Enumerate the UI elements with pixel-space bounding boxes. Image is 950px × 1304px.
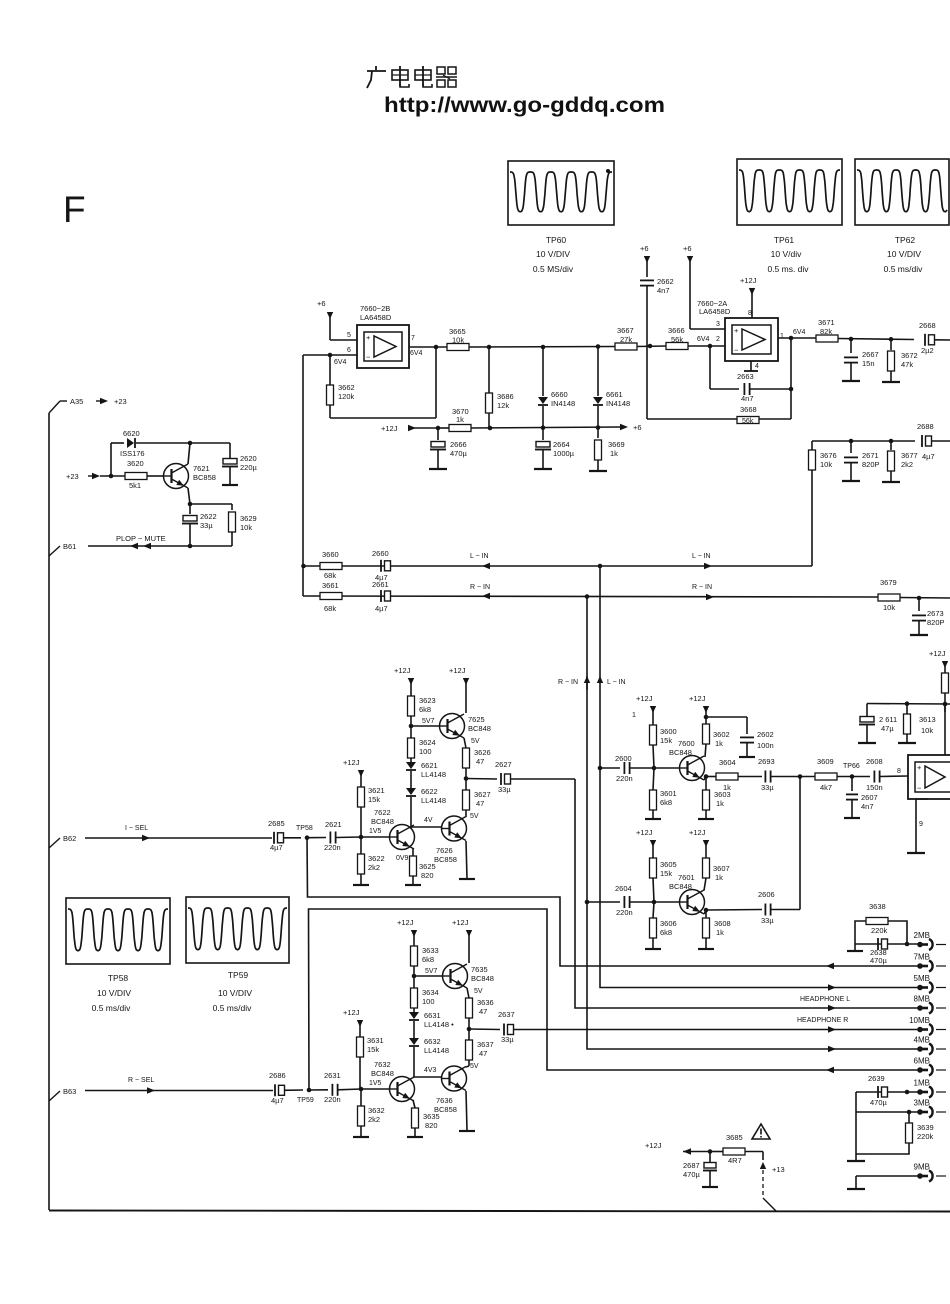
svg-text:+23: +23 [114,397,127,406]
svg-text:2667: 2667 [862,350,879,359]
resistor 3666 56k [666,326,725,350]
svg-text:6k8: 6k8 [419,705,431,714]
svg-text:TP61: TP61 [774,235,795,245]
node 2627 [464,776,469,781]
label TP58 10 V/DIV [97,988,131,998]
capacitor 2621 220n [324,820,361,852]
node 2602 branch [704,715,709,720]
svg-text:220µ: 220µ [240,463,258,472]
wire I-SEL from B62 [85,837,272,839]
label TP62 0.5 ms/div [884,264,923,274]
svg-text:ISS176: ISS176 [120,449,145,458]
wire feedback vertical 2A [790,338,792,419]
svg-text:R − SEL: R − SEL [128,1077,154,1084]
svg-text:+12J: +12J [397,918,414,927]
svg-text:220n: 220n [616,908,633,917]
power arrow +6 to opamp 2B [317,299,333,340]
node output 2A feedback [789,336,794,341]
svg-text:6MB: 6MB [914,1057,930,1066]
resistor 3605 15k [650,858,677,902]
node 3613 top [905,701,910,706]
node TP66 [843,763,860,779]
svg-text:+23: +23 [66,472,79,481]
capacitor 2662 4n7 [640,277,674,346]
pin 5 label [347,332,351,339]
svg-text:3621: 3621 [368,786,385,795]
resistor 3665 10k [447,327,615,351]
wire 3668 row [647,418,737,420]
svg-text:+12J: +12J [381,424,398,433]
wire 4MB line [587,1046,920,1052]
svg-text:33µ: 33µ [761,916,774,925]
svg-text:5V: 5V [471,738,480,745]
node 3686 top [487,345,492,350]
svg-text:3MB: 3MB [914,1099,930,1108]
wire branch to 2602 [706,717,747,734]
svg-text:2606: 2606 [758,890,775,899]
svg-text:820: 820 [421,871,434,880]
wire PLOP-MUTE [88,543,232,549]
node 2622 on plop wire [188,544,193,549]
resistor 3662 120k [327,355,355,418]
svg-text:47µ: 47µ [881,724,894,733]
connector 3MB [914,1099,946,1118]
wire 7622 collector to diode chain [410,827,412,828]
svg-text:8: 8 [748,310,752,317]
wire 2MB net [855,943,920,945]
svg-text:220n: 220n [324,1095,341,1104]
svg-text:+12J: +12J [636,694,653,703]
wire TP58 to 7MB link [307,838,588,966]
wire 7632 emitter [413,1100,415,1108]
label L-IN east [692,553,711,560]
diode 6621 LL4148 [406,760,446,788]
svg-text:2622: 2622 [200,512,217,521]
ground 3625 [405,884,421,886]
svg-text:+6: +6 [633,423,642,432]
svg-text:3666: 3666 [668,326,685,335]
svg-text:6622: 6622 [421,787,438,796]
svg-text:2k2: 2k2 [368,1115,380,1124]
resistor 3602 1k [703,724,730,757]
svg-text:3609: 3609 [817,757,834,766]
svg-text:4MB: 4MB [914,1036,930,1045]
svg-text:LA6458D: LA6458D [360,313,392,322]
switch to +13 [760,1152,785,1212]
svg-text:4V3: 4V3 [424,1067,437,1074]
power arrow +6 to pin3 of 2A [683,244,693,329]
wire 7621 collector to top node [188,443,190,464]
ground 2607 [844,817,860,819]
wire R-IN [303,596,878,597]
ground 3635 [407,1136,423,1138]
svg-text:+12J: +12J [740,276,757,285]
svg-text:56k: 56k [671,335,683,344]
svg-text:3679: 3679 [880,578,897,587]
resistor 3612 right edge [942,673,949,712]
power arrow +23 input [66,472,100,481]
svg-text:7632: 7632 [374,1060,391,1069]
svg-text:4n7: 4n7 [741,394,754,403]
svg-text:10 V/DIV: 10 V/DIV [536,249,570,259]
wire 9MB line [856,1175,920,1177]
svg-text:2µ2: 2µ2 [921,346,934,355]
svg-text:2620: 2620 [240,454,257,463]
diode 6622 LL4148 [406,787,446,827]
svg-text:2k2: 2k2 [368,863,380,872]
svg-text:3: 3 [716,321,720,328]
wire 7636 collector [466,1066,469,1067]
label TP58 0.5 ms/div [92,1003,131,1013]
svg-text:820P: 820P [862,460,880,469]
wire pin2 down to 2663 [710,346,739,389]
svg-text:BC848: BC848 [669,748,692,757]
wire emitter node down to 2622 [189,504,191,514]
svg-text:3607: 3607 [713,864,730,873]
svg-text:3624: 3624 [419,738,436,747]
wire emitter to 2606 [706,909,762,912]
svg-text:TP59: TP59 [228,970,249,980]
node 2663 right [789,387,794,392]
transistor Q7636 BC858 [434,1063,479,1114]
svg-text:+12J: +12J [636,828,653,837]
wire 7626 collector [465,816,467,817]
arrow L-IN right [704,563,712,569]
node 1MB [905,1090,910,1095]
capacitor 2627 33u [495,760,575,794]
node 2673 [917,596,922,601]
svg-text:4µ7: 4µ7 [922,452,935,461]
node 2604 on R-IN dropper [585,900,590,905]
svg-text:33µ: 33µ [761,783,774,792]
wire 2662 through main to 3668 [646,346,648,419]
wire 5MB line [600,984,920,990]
svg-text:3662: 3662 [338,383,355,392]
op-amp U7660-2A LA6458D [697,299,778,361]
svg-text:2685: 2685 [268,819,285,828]
svg-text:3620: 3620 [127,459,144,468]
svg-text:4: 4 [755,363,759,370]
ground 2667 [842,380,860,382]
svg-text:2662: 2662 [657,277,674,286]
svg-text:3671: 3671 [818,318,835,327]
svg-text:3605: 3605 [660,860,677,869]
label R-IN at droppers [558,676,590,690]
resistor 3634 100 [411,988,439,1010]
svg-text:100n: 100n [757,741,774,750]
stray label 1 [632,712,636,719]
svg-text:7626: 7626 [436,846,453,855]
arrow +6 end of rail [620,423,642,432]
connector notch A35 [49,397,83,413]
svg-text:3601: 3601 [660,789,677,798]
resistor 3672 47k [888,339,918,381]
svg-text:6621: 6621 [421,761,438,770]
svg-text:+12J: +12J [689,828,706,837]
svg-text:3638: 3638 [869,902,886,911]
wire 8MB line [602,1005,920,1011]
svg-text:47k: 47k [901,360,913,369]
node diode chain to 7636 base wire [414,1076,442,1078]
capacitor 2602 100n [740,730,774,756]
ground 2666 [429,468,447,470]
power arrow +12J bottom [645,1141,712,1155]
resistor 3661 68k [320,581,342,613]
svg-text:1k: 1k [715,873,723,882]
diode 6661 IN4148 [593,347,630,429]
svg-text:470µ: 470µ [683,1170,701,1179]
node 5V7 upper [409,718,435,728]
pin 4 label and ground stub [744,361,759,371]
wire L-IN dropper vertical [599,566,601,986]
svg-text:+12J: +12J [343,1008,360,1017]
ground 3608 [698,948,714,950]
svg-text:33µ: 33µ [501,1035,514,1044]
svg-text:3632: 3632 [368,1106,385,1115]
svg-text:10k: 10k [452,336,464,345]
svg-text:2661: 2661 [372,580,389,589]
resistor 3670 1k [449,407,620,432]
wire +23 to node [100,475,125,477]
label TP61 0.5 ms.div [767,264,809,274]
label 6V4 at pin1 [793,329,806,336]
svg-text:1MB: 1MB [914,1079,930,1088]
svg-text:2607: 2607 [861,793,878,802]
svg-text:6661: 6661 [606,390,623,399]
wire 7632 base [361,1088,390,1090]
node emitter 7601 [704,908,709,913]
node R-IN dropper [585,594,590,599]
wire long vertical to L-IN [302,355,304,596]
svg-text:4µ7: 4µ7 [270,843,283,852]
label L-IN west [470,553,489,560]
svg-text:BC858: BC858 [193,473,216,482]
transistor Q7622 BC848 [371,808,415,862]
svg-text:TP58: TP58 [108,973,129,983]
resistor 3668 56k [737,405,791,425]
label TP62 10 V/DIV [887,249,921,259]
wire 6MB line [588,1067,920,1073]
resistor 3629 10k [229,512,257,546]
svg-text:BC848: BC848 [371,1069,394,1078]
capacitor 2600 220n [600,754,653,783]
left boundary wire [48,413,50,1210]
svg-text:3623: 3623 [419,696,436,705]
wire R-SEL from B63 [85,1090,273,1092]
resistor 3669 1k [595,428,625,471]
resistor 3621 15k [358,786,385,837]
label PLOP-MUTE [116,534,166,543]
power arrow +12J 3605 [636,828,656,858]
svg-text:3626: 3626 [474,748,491,757]
svg-text:B61: B61 [63,542,76,551]
arrow headphone R line [828,1026,836,1032]
svg-text:0.5 ms/div: 0.5 ms/div [92,1003,131,1013]
svg-text:220n: 220n [324,843,341,852]
label 1V5 lower [369,1080,382,1087]
oscillogram TP58 box with waveform [66,898,170,964]
svg-text:2 611: 2 611 [879,715,897,724]
svg-text:3669: 3669 [608,440,625,449]
ground 3632 [353,1136,369,1138]
resistor 3601 6k8 [650,768,677,818]
svg-text:10k: 10k [883,603,895,612]
svg-text:LL4148: LL4148 [421,770,446,779]
svg-text:68k: 68k [324,571,336,580]
svg-text:3608: 3608 [714,919,731,928]
oscillogram TP62 box with waveform [855,159,949,225]
svg-text:1V5: 1V5 [369,1080,382,1087]
resistor 3609 4k7 [815,757,870,792]
svg-text:12k: 12k [497,401,509,410]
label TP60 0.5 MS/div [533,264,574,274]
svg-text:3629: 3629 [240,514,257,523]
svg-text:R − IN: R − IN [558,679,578,686]
capacitor 2637 33u [498,1010,515,1044]
svg-text:+12J: +12J [689,694,706,703]
svg-text:+13: +13 [772,1165,785,1174]
transistor Q7621 BC858 [164,464,216,489]
ground 7626 [459,878,475,880]
resistor 3639 220k [856,1112,934,1154]
svg-text:10 V/DIV: 10 V/DIV [97,988,131,998]
wire 7636 emitter to ground [466,1091,467,1130]
label 6V4 at pin6 [334,359,347,366]
label R-IN east [692,584,712,591]
resistor 3627 47 [463,790,491,816]
power arrow +6 above 2662 [640,244,650,277]
svg-text:3661: 3661 [322,581,339,590]
node pin2 feedback [708,344,713,349]
resistor 3626 47 [463,748,491,790]
ground 3606 [645,948,661,950]
node output 2B [434,345,439,350]
svg-text:2637: 2637 [498,1010,515,1019]
transistor Q7600 BC848 [669,739,705,781]
wire R-IN dropper vertical [586,597,588,1049]
capacitor 2638 470u [870,938,888,965]
svg-text:3639: 3639 [917,1123,934,1132]
svg-text:8MB: 8MB [914,995,930,1004]
wire pin6 to feedback node [303,354,357,356]
svg-text:7MB: 7MB [914,953,930,962]
capacitor 2631 220n [324,1071,361,1104]
svg-text:5V: 5V [474,988,483,995]
svg-text:47: 47 [479,1049,487,1058]
connector 4MB [914,1036,946,1055]
svg-text:4µ7: 4µ7 [375,604,388,613]
arrow to +23 at A35 [96,397,127,406]
pin 8 label right opamp [897,768,901,775]
wire 7625 emitter [464,738,466,748]
svg-text:27k: 27k [620,335,632,344]
transistor Q7635 BC848 [443,964,494,996]
node 6661 top [596,344,601,349]
capacitor 2604 220n [587,884,653,917]
oscillogram TP61 box with waveform [737,159,842,225]
wire 5V7 to 7635 base [414,975,443,977]
svg-text:6k8: 6k8 [660,798,672,807]
svg-text:7635: 7635 [471,965,488,974]
svg-text:4µ7: 4µ7 [271,1096,284,1105]
svg-text:1k: 1k [716,799,724,808]
capacitor 2668 2u2 [919,321,950,355]
svg-text:56k: 56k [742,418,754,425]
svg-text:3613: 3613 [919,715,936,724]
node 3MB [907,1110,912,1115]
svg-text:R − IN: R − IN [470,584,490,591]
wire +6 to pin5 [330,339,357,341]
label TP59 0.5 ms/div [213,1003,252,1013]
svg-text:2627: 2627 [495,760,512,769]
resistor 3638 220k bridge [855,902,907,944]
power arrow +12J 3621 [343,758,364,787]
svg-text:+12J: +12J [645,1141,662,1150]
arrow R-IN left [482,593,490,599]
op-amp U7660-2B LA6458D [357,304,409,368]
diode 6632 LL4148 [409,1037,449,1077]
diode 6620 ISS176 [111,429,190,458]
capacitor 2620 220u [222,443,258,484]
resistor 3623 6k8 [408,696,436,738]
svg-text:2600: 2600 [615,754,632,763]
resistor 3607 1k [703,858,730,891]
resistor 3624 100 [408,738,436,760]
connector 5MB [914,974,946,993]
svg-text:3677: 3677 [901,451,918,460]
svg-text:PLOP − MUTE: PLOP − MUTE [116,534,166,543]
power arrow +12J right edge [929,649,948,673]
node 7632 base [359,1087,364,1092]
node L-IN left [301,564,306,569]
capacitor 2685 4u7 [268,819,301,852]
wire TP59 to 6MB link [309,909,589,1090]
wire pin7 output [409,346,447,348]
node 7622 base [359,835,364,840]
svg-text:3631: 3631 [367,1036,384,1045]
svg-text:+6: +6 [683,244,692,253]
ground 9MB [847,1176,865,1189]
svg-text:HEADPHONE L: HEADPHONE L [800,996,850,1003]
svg-text:5k1: 5k1 [129,481,141,490]
svg-text:5MB: 5MB [914,974,930,983]
svg-text:IN4148: IN4148 [551,399,575,408]
svg-text:10 V/div: 10 V/div [771,249,802,259]
connector 1MB [914,1079,946,1098]
label L-IN at droppers [597,676,626,686]
svg-text:470µ: 470µ [450,449,468,458]
wire row 441 from 3676 [812,440,915,442]
svg-text:15k: 15k [660,869,672,878]
node TP58 [296,825,313,840]
wire rail to 3670 [438,427,449,429]
svg-text:2631: 2631 [324,1071,341,1080]
wire emitter node to 3629 [190,504,232,510]
svg-text:1k: 1k [456,415,464,424]
svg-text:2660: 2660 [372,549,389,558]
capacitor 2661 4u7 [372,580,391,613]
svg-text:−: − [734,346,739,355]
svg-text:2MB: 2MB [914,931,930,940]
node L-IN dropper [598,564,603,569]
svg-text:15n: 15n [862,359,875,368]
power arrow +12J 3607 [689,828,709,858]
svg-text:9MB: 9MB [914,1163,930,1172]
node 2637 [467,1027,472,1032]
svg-text:10MB: 10MB [909,1016,930,1025]
svg-text:3634: 3634 [422,988,439,997]
svg-text:2688: 2688 [917,422,934,431]
